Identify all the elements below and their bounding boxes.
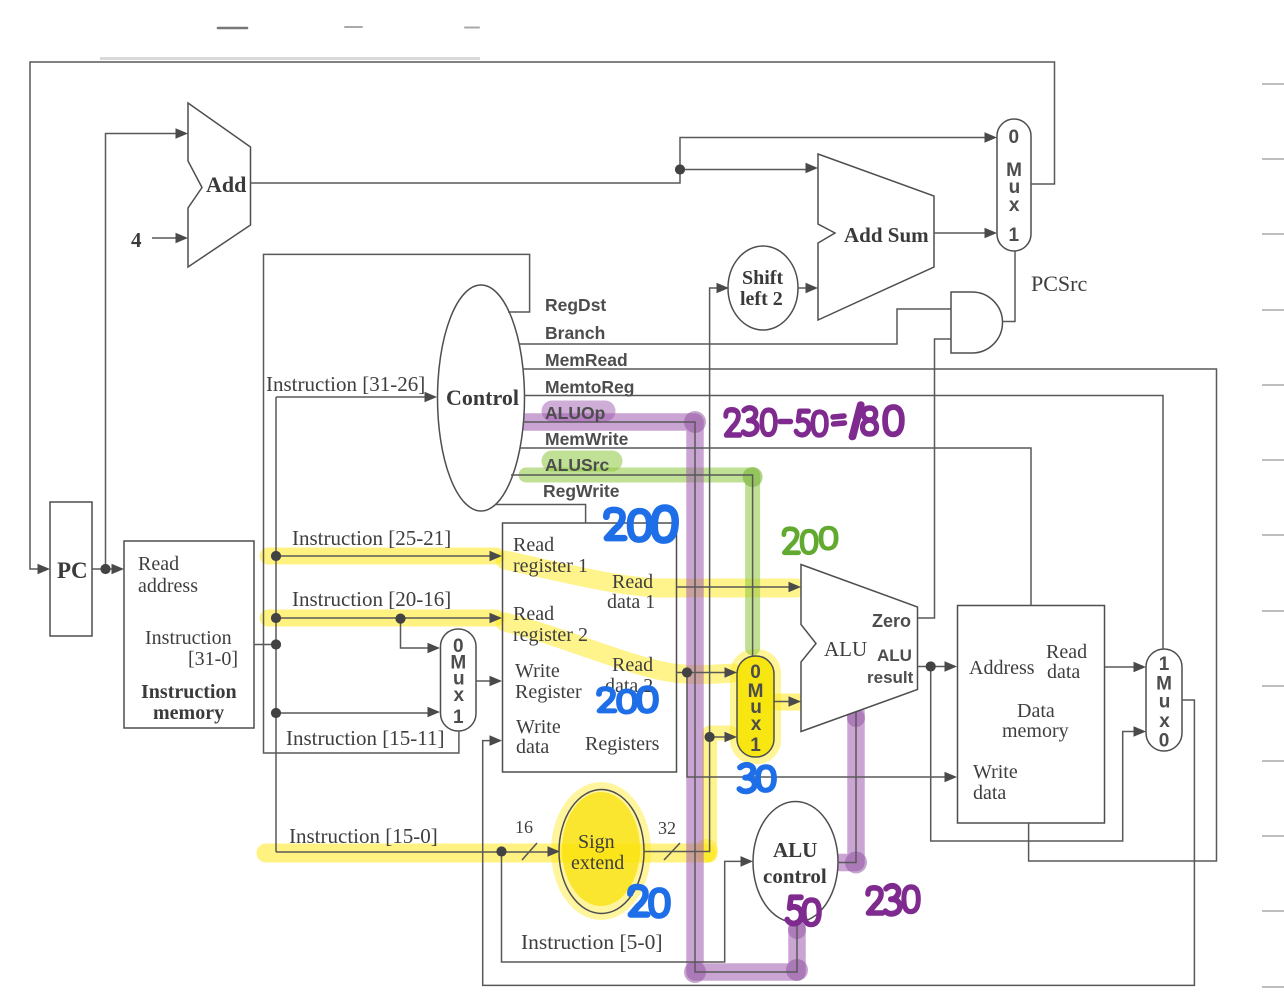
highlighter layer [266,411,867,983]
data memory box [958,606,1105,824]
wire PC+4 branch to Add Sum top input [680,169,811,171]
svg-text:Add: Add [206,172,246,197]
mux alusrc (yellow highlighted) [737,656,774,757]
svg-text:Instruction [31-26]: Instruction [31-26] [266,372,425,396]
wire PC to instruction memory [92,568,118,570]
yellow highlight instruction 15-0 wire [266,844,706,863]
wire sign extend branch to alusrc mux input 1 [710,736,731,738]
wire RegDst signal path [264,254,530,753]
wire read data 2 to alusrc mux input 0 [677,672,732,674]
arrow into sign extend [548,846,561,857]
wire ALU control output to ALU [838,712,856,863]
arrow into ALU bottom input [789,696,802,707]
mux memtoreg [1146,649,1182,751]
svg-text:data 1: data 1 [607,591,655,613]
slash 16-bit width mark [522,843,537,860]
arrow into control [425,392,438,403]
svg-text:Add Sum: Add Sum [844,223,929,247]
svg-text:Sign: Sign [578,831,615,853]
handwriting blue 200 lower [599,688,656,712]
wire instruction bus vertical [275,397,277,852]
wire MemRead signal wrap to data memory bottom [523,369,1217,861]
wire read data 1 to ALU [677,586,796,588]
svg-text:[31-0]: [31-0] [188,648,238,670]
wire pcsrc-mux output feedback loop to PC [30,62,1055,569]
wire instruction 15-11 to regdst mux input 1 [276,712,434,713]
svg-text:Read: Read [612,654,653,676]
arrow into read register 2 [490,613,503,624]
svg-text:MemtoReg: MemtoReg [545,377,634,397]
svg-text:x: x [751,714,762,735]
handwriting green 200 [784,528,836,553]
svg-text:memory: memory [1002,720,1069,742]
handwriting blue 200 upper [606,507,676,541]
wire regdst mux output to write register [476,680,496,682]
svg-text:1: 1 [1159,654,1170,675]
arrow into memtoreg mux input 0 [1134,726,1147,737]
svg-text:ALU: ALU [877,646,912,665]
svg-text:data: data [516,736,549,758]
adder Add [188,103,251,267]
svg-text:register 2: register 2 [513,624,588,646]
arrow into read register 1 [490,551,503,562]
wire AND output to pcsrc mux select [1003,252,1016,322]
yellow highlight sign extend blob [551,782,651,920]
wire instruction 31-26 into control [276,396,430,398]
svg-text:Instruction [25-21]: Instruction [25-21] [292,526,451,550]
adder Add Sum [818,154,934,320]
svg-text:Control: Control [446,385,519,410]
svg-text:x: x [1159,711,1170,732]
svg-text:Read: Read [1046,641,1087,663]
wire instruction 15-0 to sign extend [276,851,553,853]
svg-text:0: 0 [1009,127,1020,148]
svg-text:Read: Read [513,603,554,625]
svg-text:Register: Register [515,681,582,703]
svg-text:Instruction [20-16]: Instruction [20-16] [292,587,451,611]
arrow into read address [112,564,125,575]
wire ALUSrc signal to mux select [511,475,753,656]
wire instruction 20-16 [276,617,496,619]
wire Branch signal to AND gate [519,309,951,344]
arrowheads [38,128,1147,867]
svg-text:0: 0 [1159,731,1170,752]
svg-text:data: data [973,782,1006,804]
svg-text:ALU: ALU [773,838,817,862]
svg-text:16: 16 [515,817,533,837]
svg-text:Registers: Registers [585,733,660,755]
svg-text:Read: Read [138,553,179,575]
wire Add output to pcsrc mux input 0 [251,138,991,184]
svg-text:1: 1 [453,707,464,728]
svg-text:data: data [1047,661,1080,683]
node sign-extend branch junction [705,732,715,742]
arrow into write data registers [490,735,503,746]
yellow highlight instruction 20-16 wire [268,610,496,627]
svg-text:Zero: Zero [872,611,911,631]
yellow highlight alusrc mux halo [730,649,781,764]
svg-text:Branch: Branch [545,323,605,343]
svg-text:Read: Read [513,534,554,556]
node instr 20-16 junction [271,613,281,623]
svg-text:ALU: ALU [824,637,867,661]
control oval [438,285,525,511]
svg-text:Shift: Shift [742,267,783,289]
faint scan marks top [218,27,479,28]
wire PC branch up to Add [106,134,182,570]
svg-text:MemRead: MemRead [545,350,628,370]
arrow into Add top input [176,128,189,139]
handwriting purple 230 [868,886,918,914]
wire branch to regdst mux input 0 [401,619,435,648]
slash 32-bit width mark [664,843,680,860]
ALU control oval [753,802,838,923]
shift left 2 oval [728,246,798,330]
svg-text:Write: Write [515,660,560,682]
wire memtoreg mux output wrap to registers write data [483,700,1195,985]
svg-text:4: 4 [131,228,142,252]
yellow highlight sign-extend vertical branch [710,733,730,855]
svg-text:extend: extend [571,852,624,874]
svg-text:address: address [138,575,198,597]
mux pcsrc [997,119,1031,251]
wire ALUOp signal to ALU control [523,422,797,972]
svg-text:ALUSrc: ALUSrc [545,455,609,475]
ALU [801,565,918,732]
wire instruction 25-21 [276,555,496,557]
arrow into data memory address [945,661,958,672]
purple highlight ALUOp label [552,401,605,422]
svg-text:x: x [454,685,465,706]
handwriting blue 30 [739,765,774,792]
wire data memory read data to memtoreg mux input 1 [1105,666,1140,668]
handwriting purple 50 [787,897,819,924]
svg-text:left 2: left 2 [740,288,783,310]
arrow into alusrc mux input 1 [725,732,738,743]
svg-text:Read: Read [612,571,653,593]
wire constant 4 into Add [152,237,181,239]
arrow into Add Sum top input [806,163,819,174]
yellow highlight read data 1 path [505,560,796,588]
wire read data 2 branch to data memory write data [687,673,951,778]
notebook ruling ticks right edge [1262,84,1284,987]
purple marker corner caps [684,411,706,433]
wire RegWrite signal to registers top [495,505,585,524]
svg-text:ALUOp: ALUOp [545,403,605,423]
AND gate PCSrc [951,292,1002,353]
svg-text:Write: Write [516,716,561,738]
arrow into regdst mux input 1 [428,707,441,718]
svg-text:Data: Data [1017,700,1055,722]
svg-text:memory: memory [153,702,224,724]
wire ALU result wrap to memtoreg mux input 0 [931,667,1140,842]
arrow into memtoreg mux input 1 [1134,662,1147,673]
registers box [503,523,677,772]
wire sign extend output up to shift left 2 [644,288,722,852]
svg-text:1: 1 [750,735,761,756]
green highlight ALUSrc label [552,451,612,472]
handwriting purple 230-50=180 [726,405,902,437]
yellow highlight instruction 25-21 wire [268,548,496,565]
svg-text:Instruction: Instruction [145,627,232,649]
purple highlight ALUOp wire path [526,422,797,972]
arrow into Add Sum bottom input [806,283,819,294]
svg-text:register 1: register 1 [513,555,588,577]
svg-text:control: control [763,864,827,888]
svg-text:Instruction: Instruction [141,681,237,703]
node PC+4 junction [675,164,685,174]
wire Add Sum output to pcsrc mux input 1 [934,232,990,234]
yellow highlight read data 2 path [505,622,733,675]
arrow into alusrc mux input 0 [725,667,738,678]
green highlight ALUSrc wire [526,475,753,648]
arrow into pcsrc mux input 1 [985,228,998,239]
arrow into ALU control [741,856,754,867]
wire Zero to AND gate [918,339,952,618]
svg-text:RegWrite: RegWrite [543,481,620,501]
arrow into regdst mux input 0 [428,643,441,654]
svg-text:PCSrc: PCSrc [1031,271,1087,296]
arrow into write register [490,676,503,687]
arrow into ALU top input [789,582,802,593]
arrow into data memory write data [945,772,958,783]
wire instruction 5-0 to ALU control [502,852,748,963]
purple highlight alu-control output wire [840,712,856,863]
svg-text:result: result [867,668,914,687]
arrow into shift left 2 [717,283,730,294]
svg-text:Instruction [5-0]: Instruction [5-0] [521,930,663,954]
node PC output junction [100,564,110,574]
sign extend oval [559,790,644,914]
handwriting blue 20 [630,887,668,916]
svg-text:0: 0 [750,662,761,683]
svg-text:Instruction [15-0]: Instruction [15-0] [289,824,438,848]
svg-text:MemWrite: MemWrite [545,429,629,449]
node write-reg-mux branch junction [395,614,405,624]
node read data 2 junction [682,667,692,677]
wire MemtoReg signal to mux select [524,396,1163,650]
instruction memory box [124,541,254,728]
wire instruction memory output [254,644,276,646]
svg-text:Write: Write [973,761,1018,783]
svg-text:u: u [1159,692,1171,713]
svg-text:PC: PC [57,558,88,583]
svg-text:1: 1 [1009,225,1020,246]
text layer [57,127,1172,954]
mux regdst [441,629,477,731]
shapes layer [50,103,1182,923]
yellow highlight alusrc mux output [770,694,799,711]
svg-text:Address: Address [969,657,1035,679]
svg-text:Instruction [15-11]: Instruction [15-11] [286,726,444,750]
wire ALU result to data memory address [918,666,952,668]
node ALU result junction [926,661,936,671]
svg-text:32: 32 [658,818,676,838]
PC register [50,502,92,636]
node instr 15-0 junction [496,846,506,856]
wire shift left 2 output to Add Sum [798,287,811,289]
green highlight corner cap [743,467,763,487]
arrow into Add bottom input [176,233,189,244]
arrow into PC [38,564,51,575]
node instr 15-11 junction [271,708,281,718]
wire alusrc mux output to ALU [774,701,795,703]
wire MemWrite signal to data memory top [520,448,1031,606]
svg-text:x: x [1009,195,1020,216]
svg-text:RegDst: RegDst [545,295,606,315]
node instr 25-21 junction [271,551,281,561]
arrow into pcsrc mux input 0 [985,132,998,143]
node instruction bus junction [271,639,281,649]
